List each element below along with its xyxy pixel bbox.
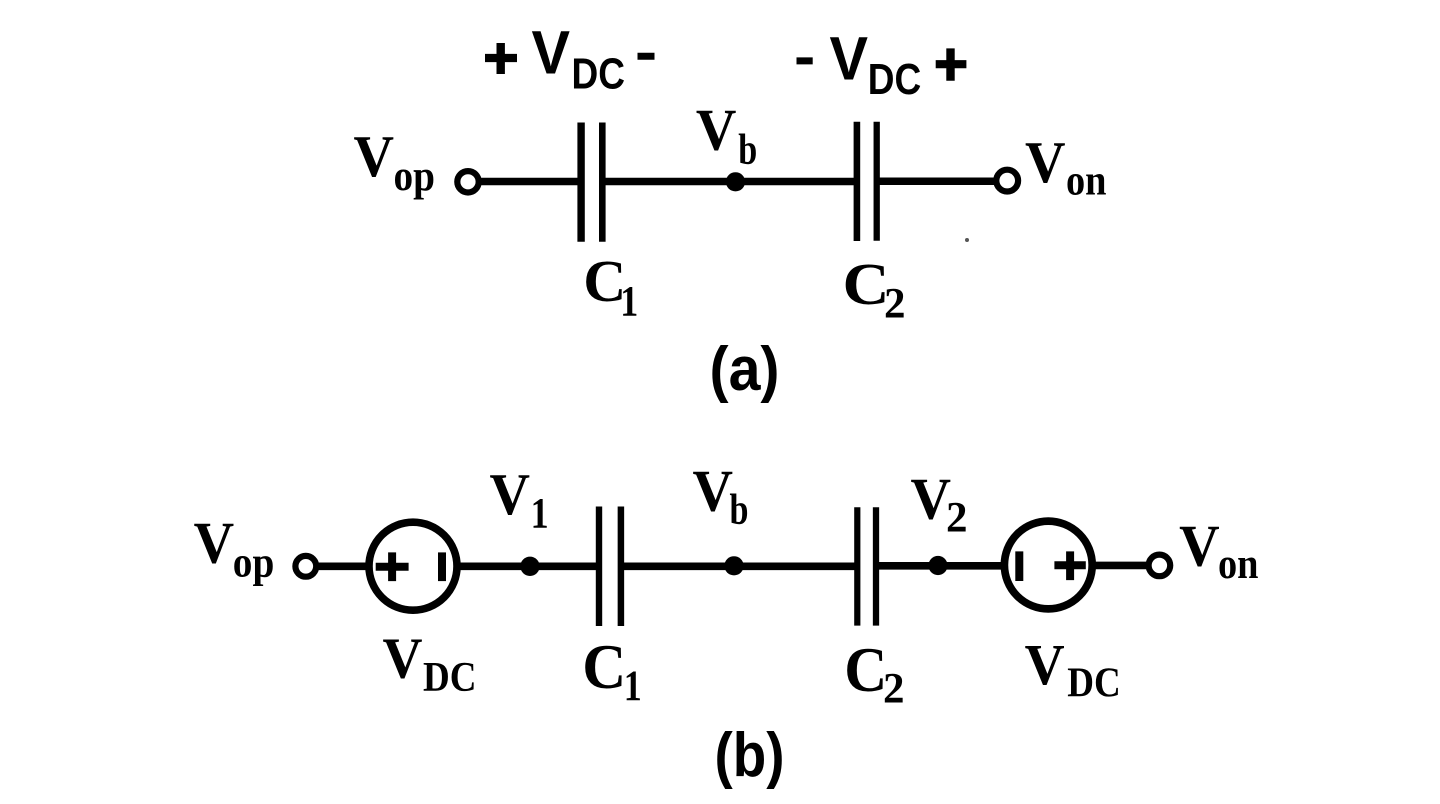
svg-text:1: 1 [624,663,642,710]
svg-text:V: V [194,510,235,576]
svg-text:b: b [738,126,757,173]
svg-text:V: V [354,123,395,189]
svg-text:V: V [532,19,571,87]
svg-text:1: 1 [531,491,549,538]
svg-text:V: V [1025,129,1066,195]
svg-text:op: op [394,153,436,200]
svg-text:C: C [843,251,890,317]
svg-text:on: on [1218,541,1259,588]
svg-text:V: V [696,96,737,162]
svg-text:1: 1 [620,278,638,325]
svg-text:2: 2 [946,495,968,542]
svg-text:2: 2 [883,666,905,713]
svg-text:V: V [1025,632,1065,697]
svg-text:2: 2 [884,280,906,327]
svg-text:on: on [1066,158,1107,205]
svg-text:V: V [830,25,869,93]
svg-text:DC: DC [572,50,626,98]
svg-text:V: V [911,466,952,532]
svg-text:V: V [1179,512,1220,578]
svg-text:op: op [233,540,274,587]
svg-text:V: V [693,458,734,524]
svg-text:(b): (b) [715,721,785,790]
svg-text:C: C [582,632,626,702]
svg-text:V: V [383,625,423,690]
svg-text:DC: DC [1067,661,1121,707]
svg-text:DC: DC [868,56,922,104]
svg-text:C: C [844,635,887,705]
svg-text:b: b [730,487,749,534]
svg-text:V: V [490,461,531,527]
svg-text:DC: DC [423,655,477,701]
svg-text:(a): (a) [710,335,780,404]
